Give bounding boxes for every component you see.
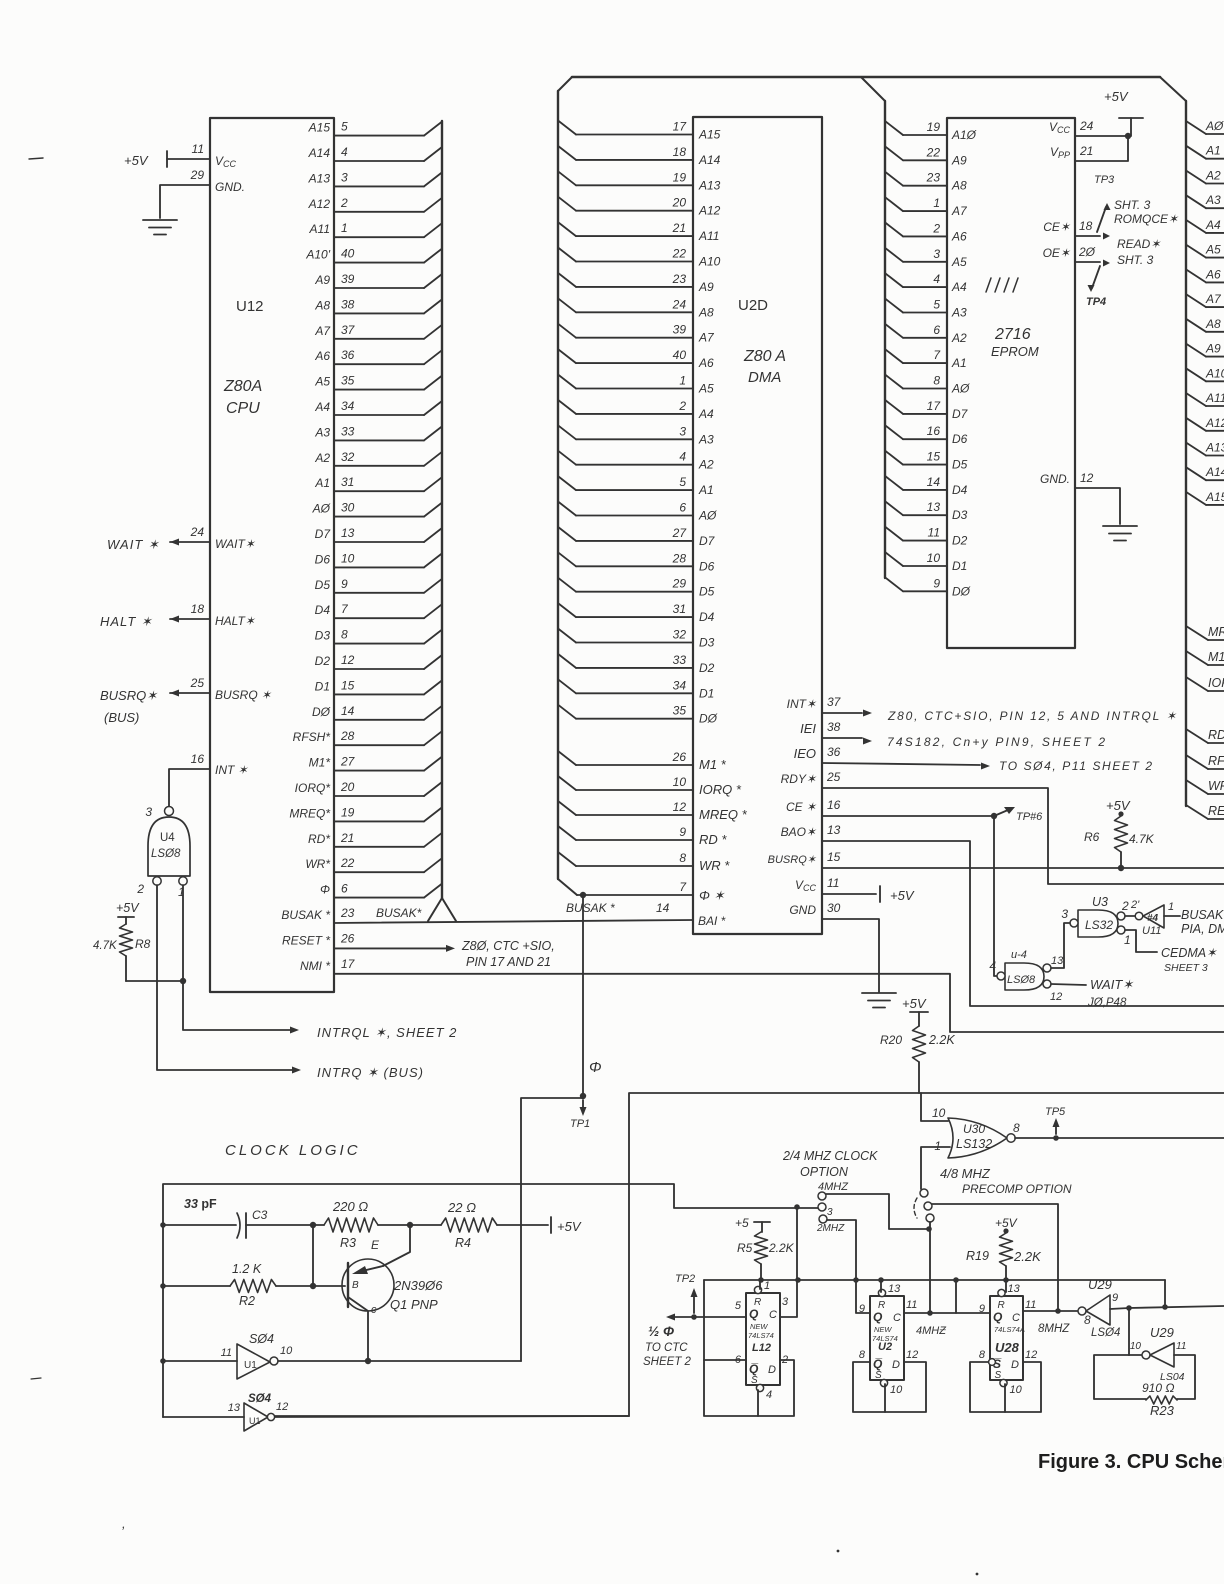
U12 pin 18 HALT* output arrow xyxy=(170,618,210,620)
svg-text:OE✶: OE✶ xyxy=(1043,246,1071,260)
svg-text:ROMQCE✶: ROMQCE✶ xyxy=(1114,212,1179,226)
wire U3 pin 1 output to CEDMA* note xyxy=(1125,930,1157,952)
resistor R23 910 ohm xyxy=(1146,1396,1177,1404)
svg-text:A7: A7 xyxy=(314,324,331,338)
svg-text:23: 23 xyxy=(340,906,355,920)
svg-text:D5: D5 xyxy=(952,458,968,472)
svg-text:1: 1 xyxy=(341,221,348,235)
wire U29 feedback to R23 xyxy=(1094,1355,1146,1399)
svg-text:22 Ω: 22 Ω xyxy=(447,1200,476,1215)
svg-text:CE ✶: CE ✶ xyxy=(786,800,817,814)
right bus stub A7 to page edge xyxy=(1186,294,1206,307)
svg-text:A1: A1 xyxy=(1205,144,1221,158)
svg-text:A4: A4 xyxy=(1205,218,1221,232)
svg-text:13: 13 xyxy=(341,526,355,540)
U12 pin 12 D2 wire to address/data bus xyxy=(334,668,424,670)
wire rail to 8MHz output line xyxy=(1164,1280,1166,1307)
svg-text:BUSRQ✶: BUSRQ✶ xyxy=(768,854,817,866)
svg-text:BAI *: BAI * xyxy=(698,914,726,928)
svg-text:A2: A2 xyxy=(698,458,714,472)
EPROM pin 9 DØ wire from bus xyxy=(885,577,903,591)
svg-text:+5V: +5V xyxy=(902,996,927,1011)
svg-text:8: 8 xyxy=(1013,1121,1020,1135)
tally marks inside EPROM xyxy=(986,278,991,292)
inverter U11 #4 buffer to BUSAK xyxy=(1135,912,1143,920)
svg-text:RFSH*: RFSH* xyxy=(293,730,331,744)
EPROM pin 19 A1Ø wire from bus xyxy=(885,121,903,135)
svg-text:2: 2 xyxy=(1121,899,1129,913)
svg-text:D3: D3 xyxy=(952,508,968,522)
svg-text:33: 33 xyxy=(673,653,687,667)
gate U4 LS08 (vertical) output to INT* xyxy=(165,807,174,816)
svg-text:5: 5 xyxy=(933,298,940,312)
svg-text:29: 29 xyxy=(190,168,205,182)
svg-text:JØ,P48: JØ,P48 xyxy=(1087,997,1127,1009)
svg-text:D1: D1 xyxy=(952,559,967,573)
svg-text:D7: D7 xyxy=(952,407,969,421)
right bus stub A3 to page edge xyxy=(1186,195,1206,208)
svg-text:24: 24 xyxy=(672,297,687,311)
svg-text:TO SØ4, P11 SHEET 2: TO SØ4, P11 SHEET 2 xyxy=(999,759,1154,773)
svg-text:GND.: GND. xyxy=(215,180,245,194)
U2D pin 15 BUSRQ* wire routed to right edge xyxy=(822,867,1224,869)
svg-text:4MHZ: 4MHZ xyxy=(818,1181,849,1193)
svg-text:2: 2 xyxy=(136,882,144,896)
U12 pin 6 Φ wire to address/data bus xyxy=(334,897,424,899)
svg-text:4: 4 xyxy=(341,145,348,159)
svg-text:A10: A10 xyxy=(698,255,721,269)
U2D pin 40 A6 wire from bus xyxy=(558,349,576,363)
svg-text:A8: A8 xyxy=(698,305,714,319)
U2D pin 23 A9 wire from bus xyxy=(558,273,576,287)
svg-text:IORQ*: IORQ* xyxy=(295,781,331,795)
svg-text:A9: A9 xyxy=(1205,342,1221,356)
svg-text:R3: R3 xyxy=(340,1236,356,1250)
svg-text:DØ: DØ xyxy=(952,584,971,598)
svg-text:16: 16 xyxy=(191,752,205,766)
svg-text:14: 14 xyxy=(341,704,355,718)
svg-text:A11: A11 xyxy=(1205,391,1224,405)
U12 pin 23 BUSAK* wire to U2D BAI* xyxy=(334,920,693,923)
svg-text:9: 9 xyxy=(1112,1292,1118,1304)
U12 pin 21 RD* wire to address/data bus xyxy=(334,846,424,848)
svg-text:LSØ8: LSØ8 xyxy=(1007,974,1036,986)
svg-text:2N39Ø6: 2N39Ø6 xyxy=(393,1278,443,1293)
svg-text:A14: A14 xyxy=(308,146,331,160)
U2D pin 33 D2 wire from bus xyxy=(558,654,576,668)
svg-text:BUSRQ ✶: BUSRQ ✶ xyxy=(215,688,272,702)
svg-text:AØ: AØ xyxy=(951,382,970,396)
svg-text:2Ø: 2Ø xyxy=(1078,245,1096,259)
svg-text:TO CTC: TO CTC xyxy=(645,1342,688,1354)
svg-text:D6: D6 xyxy=(699,559,715,573)
svg-text:A14: A14 xyxy=(1205,465,1224,479)
svg-text:TP3: TP3 xyxy=(1094,174,1115,186)
svg-text:10: 10 xyxy=(673,775,687,789)
svg-text:D3: D3 xyxy=(315,629,331,643)
flip-flop FF2 74LS74 body xyxy=(870,1296,904,1380)
ground symbol at U12 GND xyxy=(143,219,177,221)
svg-text:4MHƵ: 4MHƵ xyxy=(916,1325,947,1337)
svg-text:5: 5 xyxy=(341,120,348,134)
svg-text:B: B xyxy=(352,1280,359,1291)
svg-text:HALT✶: HALT✶ xyxy=(215,614,256,628)
svg-text:11: 11 xyxy=(928,526,940,540)
svg-text:D2: D2 xyxy=(699,661,715,675)
right bus stub A4 to page edge xyxy=(1186,220,1206,233)
inverter U1 pin11/10 S04 (oscillator) xyxy=(160,1358,166,1364)
svg-text:11: 11 xyxy=(906,1299,917,1311)
svg-text:M1*: M1* xyxy=(309,756,331,770)
svg-text:U3: U3 xyxy=(1092,895,1108,909)
EPROM pin 8 AØ wire from bus xyxy=(885,375,903,389)
U2D pin 9 RD * wire from bus xyxy=(558,826,576,840)
svg-text:M1: M1 xyxy=(1208,650,1224,664)
svg-text:A13: A13 xyxy=(698,178,721,192)
EPROM pin 11 D2 wire from bus xyxy=(885,527,903,541)
wire U-4 pin 13 output to U3 pin 3 input xyxy=(1051,923,1070,968)
svg-text:WR *: WR * xyxy=(699,858,730,873)
svg-text:4: 4 xyxy=(766,1389,772,1401)
svg-text:R19: R19 xyxy=(966,1249,989,1263)
svg-text:SHT. 3: SHT. 3 xyxy=(1117,253,1154,267)
U2D pin 30 GND wire to ground xyxy=(822,919,879,992)
svg-text:HALT ✶: HALT ✶ xyxy=(100,614,153,629)
svg-text:CLOCK LOGIC: CLOCK LOGIC xyxy=(225,1142,361,1159)
svg-text:Q: Q xyxy=(993,1310,1003,1324)
U12 pin 25 BUSRQ* output arrow xyxy=(170,692,210,694)
svg-text:WR: WR xyxy=(1208,779,1224,793)
U2D pin 3 A3 wire from bus xyxy=(558,425,576,439)
svg-text:8: 8 xyxy=(979,1349,986,1361)
svg-text:A12: A12 xyxy=(698,204,721,218)
svg-text:8: 8 xyxy=(933,374,940,388)
svg-text:2716: 2716 xyxy=(994,326,1031,343)
U12 pin 31 A1 wire to address/data bus xyxy=(334,490,424,492)
svg-text:A6: A6 xyxy=(1205,267,1221,281)
right bus stub A13 to page edge xyxy=(1186,443,1206,456)
U12 pin 40 A10' wire to address/data bus xyxy=(334,262,424,264)
svg-text:9: 9 xyxy=(341,577,348,591)
svg-text:39: 39 xyxy=(673,323,687,337)
svg-text:SØ4: SØ4 xyxy=(248,1393,272,1405)
U2D pin 34 D1 wire from bus xyxy=(558,679,576,693)
svg-text:+5V: +5V xyxy=(124,153,149,168)
svg-text:CE✶: CE✶ xyxy=(1043,220,1071,234)
svg-text:R5: R5 xyxy=(737,1241,753,1255)
svg-text:A8: A8 xyxy=(314,298,330,312)
U2D pin 4 A2 wire from bus xyxy=(558,451,576,465)
right bus stub A1 to page edge xyxy=(1186,146,1206,159)
svg-text:C: C xyxy=(769,1309,777,1321)
svg-text:A7: A7 xyxy=(1205,292,1222,306)
svg-text:PIA, DM: PIA, DM xyxy=(1181,922,1224,936)
svg-text:18: 18 xyxy=(1079,219,1093,233)
U12 bus spine (address/data bus between U12 and U2D) xyxy=(441,121,443,898)
svg-text:A3: A3 xyxy=(314,425,330,439)
svg-text:3: 3 xyxy=(782,1296,789,1308)
U2D pin 6 AØ wire from bus xyxy=(558,502,576,516)
U2D pin 17 A15 wire from bus xyxy=(558,121,576,135)
svg-text:LSØ4: LSØ4 xyxy=(1091,1327,1120,1339)
U2D pin 36 IEO wire with long arrow to note xyxy=(822,763,980,765)
inverter U29 pin 10/11 LS04 (feedback) xyxy=(1128,1308,1130,1355)
svg-text:A13: A13 xyxy=(1205,441,1224,455)
U2D left bus spine xyxy=(557,91,559,879)
svg-text:A8: A8 xyxy=(951,179,967,193)
svg-text:A7: A7 xyxy=(698,331,715,345)
svg-text:30: 30 xyxy=(341,501,355,515)
U12 pin 37 A7 wire to address/data bus xyxy=(334,338,424,340)
svg-text:A12: A12 xyxy=(308,197,331,211)
svg-text:D7: D7 xyxy=(699,534,716,548)
svg-text:33 pF: 33 pF xyxy=(184,1197,217,1211)
svg-text:13: 13 xyxy=(927,500,941,514)
R8 pull-up 4.7K with +5V xyxy=(116,901,140,915)
svg-text:DMA: DMA xyxy=(748,369,781,386)
svg-text:u-4: u-4 xyxy=(1011,949,1027,961)
svg-text:A1: A1 xyxy=(314,476,330,490)
flip-flop FF3 74LS74 body xyxy=(990,1296,1023,1380)
svg-text:S: S xyxy=(751,1375,758,1386)
svg-text:10: 10 xyxy=(932,1106,946,1120)
svg-text:A5: A5 xyxy=(951,255,967,269)
EPROM pin 7 A1 wire from bus xyxy=(885,349,903,363)
svg-text:74S182, Cn+y PIN9, SHEET 2: 74S182, Cn+y PIN9, SHEET 2 xyxy=(887,735,1107,749)
svg-text:2MHZ: 2MHZ xyxy=(816,1223,845,1234)
U12 pin 38 A8 wire to address/data bus xyxy=(334,312,424,314)
R20 2.2K pull-up with +5V xyxy=(910,1011,928,1013)
U12 pin 33 A3 wire to address/data bus xyxy=(334,439,424,441)
U12 pin 17 NMI* wire routed to right edge xyxy=(334,974,1224,1032)
svg-text:NMI *: NMI * xyxy=(300,959,330,973)
svg-text:INTRQL ✶, SHEET 2: INTRQL ✶, SHEET 2 xyxy=(317,1025,457,1040)
U12 pin 24 WAIT* output arrow xyxy=(170,541,210,543)
right bus stub A9 to page edge xyxy=(1186,344,1206,357)
svg-text:D4: D4 xyxy=(699,610,715,624)
right bus stub A5 to page edge xyxy=(1186,245,1206,258)
svg-text:4: 4 xyxy=(989,959,996,973)
svg-text:2: 2 xyxy=(932,221,940,235)
right bus stub A10 to page edge xyxy=(1186,368,1206,381)
bus branch bevel into EPROM bus spine xyxy=(861,77,885,101)
svg-text:#4: #4 xyxy=(1147,913,1159,924)
svg-text:+5: +5 xyxy=(735,1216,749,1230)
svg-text:4: 4 xyxy=(679,450,686,464)
U12 pin 2 A12 wire to address/data bus xyxy=(334,211,424,213)
svg-text:2': 2' xyxy=(1130,899,1140,911)
right bus stub A11 to page edge xyxy=(1186,393,1206,406)
svg-text:R23: R23 xyxy=(1150,1403,1175,1418)
svg-text:Q1 PNP: Q1 PNP xyxy=(390,1297,438,1312)
svg-text:17: 17 xyxy=(673,120,688,134)
right bus stub AØ to page edge xyxy=(1186,121,1206,134)
U2D pin 29 D5 wire from bus xyxy=(558,578,576,592)
svg-text:10: 10 xyxy=(890,1384,903,1396)
EPROM pin 22 A9 wire from bus xyxy=(885,146,903,160)
U12 pin 5 A15 wire to address/data bus xyxy=(334,135,424,137)
svg-text:10: 10 xyxy=(280,1345,293,1357)
svg-text:11: 11 xyxy=(1176,1341,1186,1352)
EPROM pin 3 A5 wire from bus xyxy=(885,248,903,262)
EPROM pin 21 Vpp wire xyxy=(1075,136,1128,161)
EPROM pin 13 D3 wire from bus xyxy=(885,501,903,515)
svg-text:D3: D3 xyxy=(699,636,715,650)
svg-text:1.2 K: 1.2 K xyxy=(232,1262,262,1276)
R6 4.7K pull-up with +5V on BUSRQ* line xyxy=(1106,798,1131,813)
U12 pin 10 D6 wire to address/data bus xyxy=(334,566,424,568)
svg-text:S: S xyxy=(875,1370,882,1381)
svg-text:A15: A15 xyxy=(308,121,331,135)
wire rail down to FF3 input xyxy=(955,1280,957,1313)
U12 pin 15 D1 wire to address/data bus xyxy=(334,693,424,695)
svg-text:A5: A5 xyxy=(314,375,330,389)
svg-text:INT ✶: INT ✶ xyxy=(215,763,249,777)
svg-text:C: C xyxy=(893,1312,901,1324)
svg-text:D1: D1 xyxy=(699,686,714,700)
svg-text:23: 23 xyxy=(926,171,941,185)
svg-text:INT✶: INT✶ xyxy=(787,697,817,711)
U2D pin 26 M1 * wire from bus xyxy=(558,751,576,765)
svg-text:16: 16 xyxy=(827,798,841,812)
svg-text:A5: A5 xyxy=(1205,243,1221,257)
U12 pin 14 DØ wire to address/data bus xyxy=(334,719,424,721)
svg-text:U30: U30 xyxy=(963,1122,985,1136)
U2D pin 19 A13 wire from bus xyxy=(558,171,576,185)
svg-text:A3: A3 xyxy=(1205,193,1221,207)
svg-text:A4: A4 xyxy=(698,407,714,421)
svg-text:8MHZ: 8MHZ xyxy=(1038,1323,1070,1335)
EPROM pin 16 D6 wire from bus xyxy=(885,425,903,439)
svg-text:A5: A5 xyxy=(698,382,714,396)
U12 pin 19 MREQ* wire to address/data bus xyxy=(334,820,424,822)
svg-text:13: 13 xyxy=(1008,1283,1021,1295)
svg-text:SHEET 2: SHEET 2 xyxy=(643,1356,692,1368)
svg-text:SHEET 3: SHEET 3 xyxy=(1164,962,1208,974)
svg-text:D6: D6 xyxy=(315,552,331,566)
svg-text:RD *: RD * xyxy=(699,832,727,847)
IC 2716 EPROM body xyxy=(947,118,1075,648)
svg-text:R20: R20 xyxy=(880,1033,902,1047)
EPROM pin 18 CE* wire to ROMCE* with TP3 xyxy=(1075,235,1100,237)
svg-text:A11: A11 xyxy=(309,222,330,236)
svg-text:Φ: Φ xyxy=(320,883,330,897)
svg-text:Q: Q xyxy=(749,1307,759,1321)
svg-text:CEDMA✶: CEDMA✶ xyxy=(1161,946,1218,960)
right bus stub A6 to page edge xyxy=(1186,269,1206,282)
svg-text:A1: A1 xyxy=(951,356,967,370)
svg-text:12: 12 xyxy=(1050,991,1062,1003)
svg-text:19: 19 xyxy=(927,120,941,134)
svg-text:A4: A4 xyxy=(314,400,330,414)
svg-text:3: 3 xyxy=(933,247,940,261)
svg-text:24: 24 xyxy=(190,525,205,539)
svg-text:16: 16 xyxy=(927,424,941,438)
svg-text:74LS74A: 74LS74A xyxy=(994,1325,1025,1334)
svg-text:38: 38 xyxy=(827,720,841,734)
svg-text:15: 15 xyxy=(827,850,841,864)
svg-text:A10: A10 xyxy=(1205,366,1224,380)
svg-text:U12: U12 xyxy=(236,298,264,315)
svg-text:2.2K: 2.2K xyxy=(768,1241,795,1255)
svg-text:37: 37 xyxy=(827,695,842,709)
svg-text:R8: R8 xyxy=(135,937,151,951)
svg-text:A3: A3 xyxy=(698,432,714,446)
svg-text:U2D: U2D xyxy=(738,297,768,314)
svg-text:25: 25 xyxy=(826,770,841,784)
U2D pin 24 A8 wire from bus xyxy=(558,298,576,312)
svg-text:27: 27 xyxy=(672,526,688,540)
svg-text:A2: A2 xyxy=(951,331,967,345)
svg-text:C3: C3 xyxy=(252,1208,268,1222)
svg-text:21: 21 xyxy=(1079,144,1093,158)
svg-text:CPU: CPU xyxy=(226,400,260,417)
right bus stub IORQ* to page edge xyxy=(1186,677,1208,691)
U12 pin 34 A4 wire to address/data bus xyxy=(334,414,424,416)
svg-text:3: 3 xyxy=(679,424,686,438)
svg-text:A9: A9 xyxy=(314,273,330,287)
svg-text:A15: A15 xyxy=(698,128,721,142)
FF2 output 4MHz wire to FF3 xyxy=(904,1312,990,1314)
svg-text:NEW: NEW xyxy=(750,1322,768,1331)
FF3 R input wire from R19 xyxy=(1005,1280,1007,1292)
svg-text:MREQ*: MREQ* xyxy=(289,806,330,820)
svg-text:12: 12 xyxy=(906,1349,918,1361)
svg-text:34: 34 xyxy=(341,399,355,413)
svg-text:IEI: IEI xyxy=(800,721,816,736)
svg-text:DØ: DØ xyxy=(699,712,718,726)
phi clock vertical wire from U2D pin 7 node xyxy=(582,895,584,1096)
svg-text:R6: R6 xyxy=(1084,830,1100,844)
svg-text:11: 11 xyxy=(827,876,839,890)
svg-text:D7: D7 xyxy=(315,527,332,541)
svg-text:TP1: TP1 xyxy=(570,1118,590,1130)
wire 4/8 jumper bottom down to 4MHz node xyxy=(929,1222,931,1313)
svg-text:11: 11 xyxy=(192,142,204,156)
svg-text:5: 5 xyxy=(735,1300,742,1312)
svg-text:3: 3 xyxy=(1061,907,1068,921)
svg-text:8: 8 xyxy=(341,628,348,642)
svg-text:11: 11 xyxy=(221,1347,232,1359)
U2D pin 1 A5 wire from bus xyxy=(558,375,576,389)
svg-text:9: 9 xyxy=(679,825,686,839)
svg-text:4.7K: 4.7K xyxy=(93,940,118,952)
right bus stub A14 to page edge xyxy=(1186,467,1206,480)
svg-text:1: 1 xyxy=(1168,901,1174,913)
svg-text:15: 15 xyxy=(341,678,355,692)
EPROM pin 20 OE* wire to READ* with TP4 xyxy=(1075,261,1100,263)
svg-text:WAIT✶: WAIT✶ xyxy=(215,537,256,551)
svg-text:D5: D5 xyxy=(315,578,331,592)
U12 pin 4 A14 wire to address/data bus xyxy=(334,160,424,162)
svg-text:8: 8 xyxy=(1084,1313,1091,1327)
U12 pin 22 WR* wire to address/data bus xyxy=(334,871,424,873)
svg-text:D2: D2 xyxy=(315,654,331,668)
svg-text:U29: U29 xyxy=(1088,1277,1112,1292)
U12 pin 20 IORQ* wire to address/data bus xyxy=(334,795,424,797)
top horizontal bus wire xyxy=(572,76,1160,79)
flip-flop FF1 74LS74 body xyxy=(746,1293,780,1385)
svg-text:40: 40 xyxy=(673,348,687,362)
svg-text:6: 6 xyxy=(341,882,348,896)
U12 pin 8 D3 wire to address/data bus xyxy=(334,643,424,645)
svg-text:A3: A3 xyxy=(951,306,967,320)
U12 pin 26 RESET* wire with arrow to note xyxy=(334,947,446,949)
svg-text:31: 31 xyxy=(673,602,686,616)
svg-text:3: 3 xyxy=(827,1207,833,1218)
svg-text:40: 40 xyxy=(341,247,355,261)
bus bevel into U2D left bus spine xyxy=(558,77,572,91)
